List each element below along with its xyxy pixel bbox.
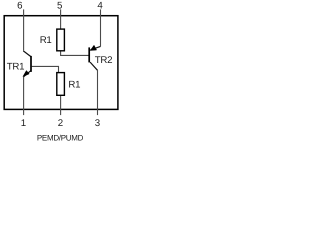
wire TR2 emitter diagonal — [90, 46, 100, 50]
resistor R1 upper body — [57, 29, 65, 51]
transistor TR1 emitter arrow — [23, 71, 29, 77]
svg-text:R1: R1 — [68, 80, 80, 91]
wire pin3 vertical — [97, 70, 99, 115]
wire pin4 vertical — [100, 9, 102, 46]
wire pin1 vertical — [23, 77, 25, 116]
svg-text:1: 1 — [21, 118, 26, 129]
transistor TR2 base bar — [88, 47, 90, 62]
svg-text:5: 5 — [57, 0, 62, 11]
transistor TR1 base bar — [30, 56, 32, 72]
svg-text:6: 6 — [17, 0, 22, 11]
svg-text:PEMD/PUMD: PEMD/PUMD — [37, 133, 84, 142]
wire TR1 base to lower R1 top — [32, 66, 59, 72]
wire lower R1 bottom to pin2 — [60, 95, 62, 115]
svg-text:R1: R1 — [40, 35, 52, 46]
wire pin6 vertical — [23, 9, 25, 50]
svg-text:3: 3 — [95, 118, 100, 129]
svg-text:2: 2 — [58, 118, 63, 129]
package outline box — [4, 16, 118, 110]
wire R1 bottom to TR2 base — [61, 51, 89, 56]
wire TR1 collector diagonal — [23, 51, 31, 57]
svg-text:TR2: TR2 — [95, 55, 112, 66]
wire TR1 emitter diagonal — [24, 71, 31, 77]
resistor R1 lower body — [57, 73, 65, 96]
transistor TR2 emitter arrow — [90, 45, 96, 50]
svg-text:TR1: TR1 — [7, 62, 24, 73]
wire pin5 to R1 top — [60, 9, 62, 29]
wire TR2 collector diagonal — [90, 62, 97, 70]
